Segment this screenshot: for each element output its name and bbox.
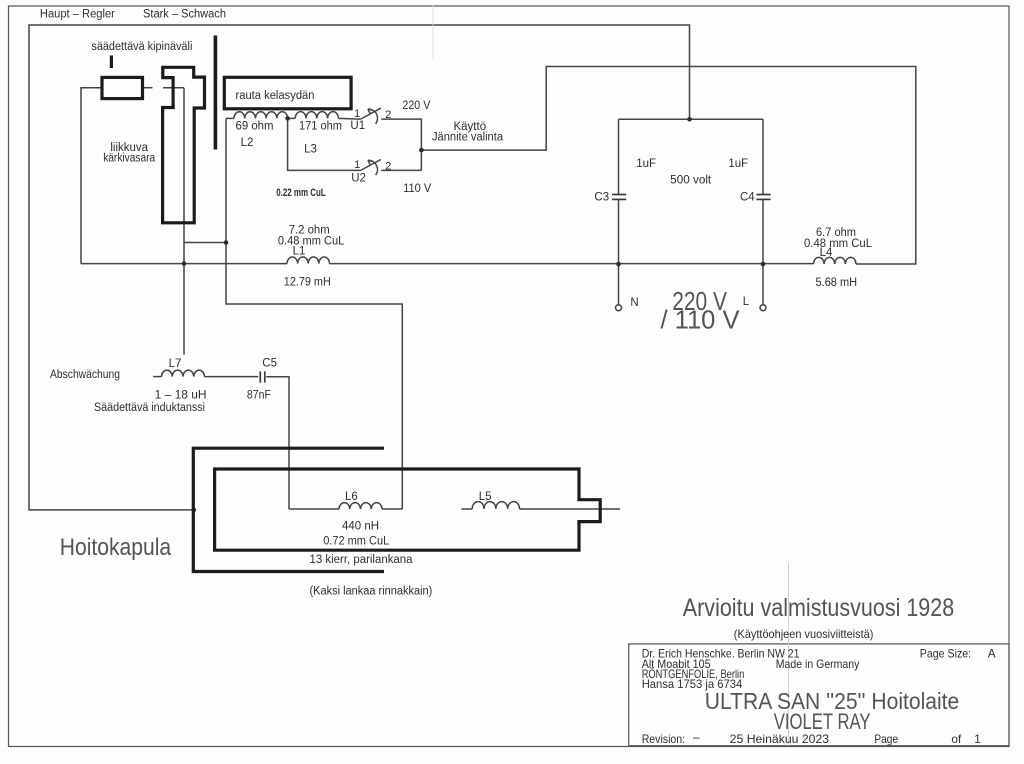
svg-text:L: L: [743, 296, 750, 308]
svg-text:(Käyttöohjeen vuosiviitteistä): (Käyttöohjeen vuosiviitteistä): [734, 627, 874, 641]
svg-text:L1: L1: [293, 246, 306, 258]
svg-text:12.79 mH: 12.79 mH: [284, 276, 331, 288]
svg-text:1 – 18 uH: 1 – 18 uH: [155, 390, 207, 402]
svg-text:U2: U2: [351, 173, 366, 185]
svg-text:L4: L4: [820, 247, 833, 259]
svg-text:Jännite valinta: Jännite valinta: [432, 131, 504, 143]
svg-text:Haupt – Regler: Haupt – Regler: [40, 9, 115, 21]
svg-text:Page Size:: Page Size:: [920, 647, 971, 661]
svg-text:500 volt: 500 volt: [670, 174, 712, 186]
svg-text:0.22 mm CuL: 0.22 mm CuL: [276, 187, 326, 199]
svg-text:L2: L2: [241, 137, 254, 149]
svg-text:C3: C3: [594, 192, 609, 204]
svg-text:säädettävä kipinäväli: säädettävä kipinäväli: [91, 41, 192, 53]
svg-text:U1: U1: [350, 120, 365, 132]
svg-text:1uF: 1uF: [636, 158, 656, 170]
svg-text:0.48 mm CuL: 0.48 mm CuL: [804, 238, 873, 250]
svg-text:69 ohm: 69 ohm: [236, 121, 274, 133]
svg-text:Hoitokapula: Hoitokapula: [60, 534, 172, 561]
svg-text:N: N: [630, 297, 638, 309]
svg-text:171 ohm: 171 ohm: [299, 121, 342, 133]
svg-text:Abschwächung: Abschwächung: [50, 369, 120, 381]
svg-text:(Kaksi lankaa rinnakkain): (Kaksi lankaa rinnakkain): [310, 585, 433, 597]
svg-text:13 kierr, parilankana: 13 kierr, parilankana: [310, 554, 414, 566]
svg-text:Revision:: Revision:: [642, 732, 685, 746]
svg-text:2: 2: [385, 160, 391, 172]
svg-text:Säädettävä induktanssi: Säädettävä induktanssi: [94, 402, 205, 414]
svg-text:L7: L7: [169, 358, 182, 370]
svg-text:1: 1: [354, 159, 360, 171]
svg-text:2: 2: [385, 109, 391, 121]
svg-text:0.48 mm CuL: 0.48 mm CuL: [278, 235, 345, 247]
svg-text:/ 110 V: / 110 V: [661, 307, 740, 335]
svg-text:110 V: 110 V: [403, 183, 431, 195]
svg-text:1: 1: [974, 732, 981, 746]
svg-text:Stark – Schwach: Stark – Schwach: [143, 9, 226, 21]
svg-text:5.68 mH: 5.68 mH: [816, 277, 858, 289]
svg-text:25 Heinäkuu 2023: 25 Heinäkuu 2023: [730, 732, 830, 746]
svg-text:440 nH: 440 nH: [342, 521, 379, 533]
svg-text:Arvioitu valmistusvuosi 1928: Arvioitu valmistusvuosi 1928: [683, 594, 954, 622]
svg-text:Made in Germany: Made in Germany: [776, 657, 860, 671]
svg-text:of: of: [951, 732, 962, 746]
svg-text:kärkivasara: kärkivasara: [103, 153, 156, 165]
svg-text:0.72 mm CuL: 0.72 mm CuL: [323, 536, 390, 548]
svg-text:VIOLET RAY: VIOLET RAY: [774, 709, 871, 734]
svg-text:1uF: 1uF: [728, 158, 748, 170]
svg-text:1: 1: [354, 108, 360, 120]
svg-text:C4: C4: [740, 192, 755, 204]
svg-text:87nF: 87nF: [247, 390, 271, 402]
svg-text:Page: Page: [874, 732, 898, 746]
svg-text:–: –: [693, 730, 700, 744]
svg-text:L3: L3: [304, 143, 317, 155]
svg-text:A: A: [988, 647, 996, 661]
svg-text:L6: L6: [345, 491, 358, 503]
svg-text:C5: C5: [262, 357, 277, 369]
svg-text:220 V: 220 V: [402, 100, 430, 112]
svg-text:L5: L5: [479, 491, 492, 503]
svg-text:rauta kelasydän: rauta kelasydän: [236, 90, 315, 102]
